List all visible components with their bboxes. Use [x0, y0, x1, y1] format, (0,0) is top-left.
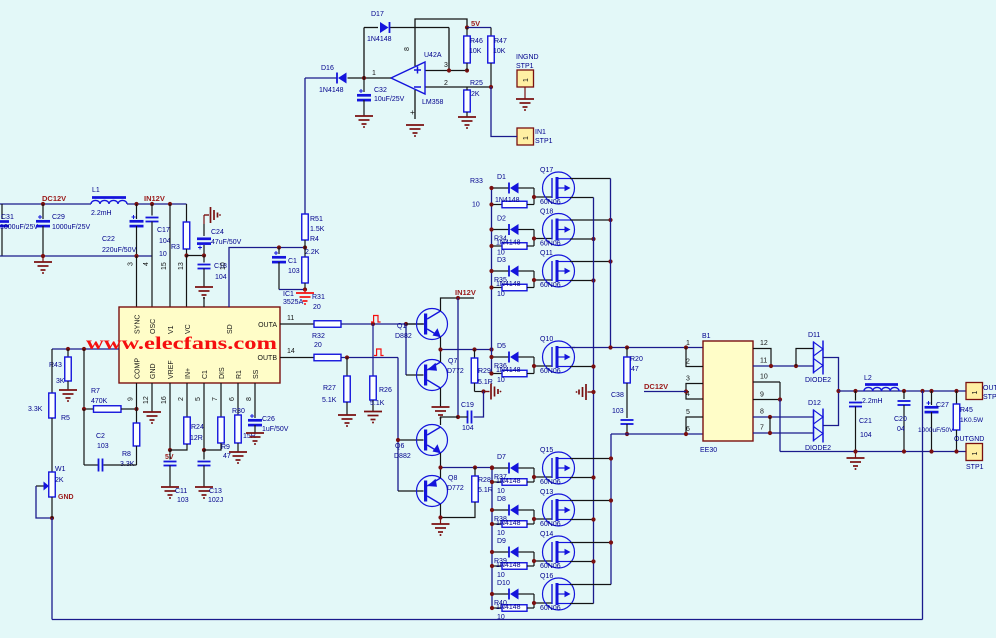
resistor R47 — [490, 28, 492, 37]
svg-text:5: 5 — [195, 397, 202, 401]
wire: 12V to Q6 collector — [441, 417, 459, 425]
wire: OSC pin stub — [151, 256, 153, 307]
wire: Q8 gnd stub — [440, 518, 442, 525]
resistor R39 — [492, 565, 502, 567]
svg-text:8: 8 — [404, 47, 411, 51]
svg-text:1N4148: 1N4148 — [496, 240, 521, 247]
svg-text:10: 10 — [760, 374, 768, 381]
wire: C19 left — [458, 416, 468, 418]
resistor R46 — [466, 28, 468, 37]
node VREF 5V — [168, 448, 172, 452]
svg-text:U42A: U42A — [424, 52, 442, 59]
wire: 12V rail — [457, 298, 459, 417]
svg-text:9: 9 — [128, 397, 135, 401]
svg-text:60N06: 60N06 — [540, 479, 561, 486]
wire: pin2 row — [425, 86, 491, 88]
svg-text:16: 16 — [161, 396, 168, 404]
svg-text:47uF/50V: 47uF/50V — [211, 239, 242, 246]
wire: Q7 collector — [440, 388, 442, 407]
wire: gate node Q17 — [533, 188, 535, 205]
svg-text:D882: D882 — [394, 453, 411, 460]
svg-text:OUTA: OUTA — [258, 322, 277, 329]
svg-text:60N06: 60N06 — [540, 199, 561, 206]
diode D10 — [492, 593, 509, 595]
svg-text:1000uF/50V: 1000uF/50V — [918, 427, 954, 434]
svg-text:104: 104 — [462, 425, 474, 432]
wire: Q13 source — [570, 519, 594, 521]
svg-text:1: 1 — [523, 136, 530, 140]
svg-text:GND: GND — [58, 494, 74, 501]
svg-text:10: 10 — [159, 251, 167, 258]
wire: R29 to rgnd — [475, 391, 484, 393]
svg-text:STP1: STP1 — [516, 63, 534, 70]
node 5V junction — [465, 25, 469, 29]
svg-text:3: 3 — [686, 376, 690, 383]
svg-text:C20: C20 — [894, 416, 907, 423]
wire: Q15 source — [570, 477, 594, 479]
wire: Q14 source — [570, 561, 594, 563]
svg-text:C21: C21 — [859, 418, 872, 425]
resistor R45 — [956, 391, 958, 404]
svg-text:L2: L2 — [864, 375, 872, 382]
svg-text:104: 104 — [860, 432, 872, 439]
wire: pin2 tie — [686, 348, 703, 367]
pulse icon OUTA — [371, 316, 381, 323]
IC U1 3525A body — [119, 307, 280, 383]
resistor R3 — [186, 204, 188, 222]
resistor R24 — [186, 383, 188, 417]
capacitor C13 — [203, 450, 205, 460]
diode D17 — [389, 22, 391, 33]
svg-text:5.1K: 5.1K — [322, 397, 337, 404]
node C22 rail — [134, 254, 138, 258]
node SD R51 — [303, 245, 307, 249]
svg-text:C24: C24 — [211, 229, 224, 236]
svg-text:C26: C26 — [262, 416, 275, 423]
node pin1 R20 — [625, 345, 629, 349]
wire: W1 wiper bracket — [36, 486, 52, 518]
svg-text:6: 6 — [229, 397, 236, 401]
node gate Q10 — [532, 364, 536, 368]
svg-text:C1: C1 — [202, 370, 209, 379]
svg-text:C38: C38 — [611, 392, 624, 399]
svg-text:+: + — [410, 108, 415, 117]
svg-text:7: 7 — [760, 425, 764, 432]
resistor R25 — [464, 90, 471, 112]
node gate bus A join — [489, 347, 493, 351]
svg-text:OSC: OSC — [150, 319, 157, 334]
ground under R43 — [59, 389, 77, 391]
capacitor C29 — [42, 204, 44, 219]
inductor L2 — [865, 383, 898, 386]
svg-text:STP1: STP1 — [535, 138, 553, 145]
node R7 branch — [82, 347, 86, 351]
svg-text:D772: D772 — [447, 485, 464, 492]
wire: Q10 drain — [570, 347, 575, 349]
node R3 bottom — [184, 253, 188, 257]
node D1 bus a — [489, 186, 493, 190]
node R29 bottom — [481, 389, 485, 393]
svg-text:IN12V: IN12V — [455, 288, 476, 297]
wire: Q18 source — [570, 238, 594, 240]
svg-text:Q17: Q17 — [540, 167, 553, 174]
node C27 bottom — [929, 449, 933, 453]
resistor R5 — [51, 349, 53, 393]
svg-text:1K0.5W: 1K0.5W — [960, 417, 984, 424]
transistor Q15 — [543, 452, 575, 484]
wire: R29 node to C19 — [474, 392, 484, 418]
rotated ground source bus — [588, 391, 593, 393]
ground under C32 — [355, 115, 373, 117]
svg-text:1N4148: 1N4148 — [496, 367, 521, 374]
wire: pin11 row — [753, 365, 814, 367]
transistor Q13 — [543, 494, 575, 526]
node pin3 a — [447, 68, 451, 72]
capacitor C24 — [203, 224, 205, 236]
svg-text:C22: C22 — [102, 236, 115, 243]
svg-text:8: 8 — [246, 397, 253, 401]
transistor Q14 — [543, 536, 575, 568]
node gate Q16 — [532, 601, 536, 605]
wire: OUTGND row — [780, 451, 966, 453]
node pin8 tie — [768, 415, 772, 419]
svg-text:C17: C17 — [157, 227, 170, 234]
wire: IC left pin row — [52, 348, 119, 350]
svg-text:2: 2 — [178, 397, 185, 401]
node COMP — [134, 407, 138, 411]
svg-text:D7: D7 — [497, 454, 506, 461]
transistor Q17 — [543, 172, 575, 204]
svg-text:1N4148: 1N4148 — [319, 87, 344, 94]
resistor R34 — [492, 245, 503, 247]
svg-text:10K: 10K — [469, 48, 482, 55]
capacitor C11 — [169, 450, 171, 460]
node C29 gnd — [41, 254, 45, 258]
svg-text:R46: R46 — [470, 38, 483, 45]
svg-text:R32: R32 — [312, 333, 325, 340]
wire: COMP stub — [136, 383, 138, 409]
svg-text:VREF: VREF — [168, 360, 175, 379]
wire: D11 common — [823, 358, 839, 392]
svg-text:C32: C32 — [374, 87, 387, 94]
svg-text:7: 7 — [212, 397, 219, 401]
node D9 bus b — [490, 564, 494, 568]
op-amp V- pin — [414, 90, 416, 119]
svg-text:11: 11 — [760, 358, 767, 365]
svg-text:60N06: 60N06 — [540, 282, 561, 289]
rotated ground above C24 — [204, 214, 209, 216]
transistor Q10 — [543, 341, 575, 373]
resistor R40 — [492, 607, 502, 609]
node R43 top — [66, 347, 70, 351]
svg-text:R30: R30 — [232, 408, 245, 415]
svg-text:R1: R1 — [236, 370, 243, 379]
svg-text:D9: D9 — [497, 538, 506, 545]
svg-text:2: 2 — [444, 80, 448, 87]
svg-text:Q15: Q15 — [540, 447, 553, 454]
node Q15 source — [591, 475, 595, 479]
wire: feedback riser — [922, 391, 924, 620]
node feedback tap — [920, 389, 924, 393]
svg-text:1.5K: 1.5K — [310, 226, 325, 233]
svg-text:C1: C1 — [288, 258, 297, 265]
wire: VREF pin — [169, 383, 171, 450]
wire: pin9 stub — [753, 399, 780, 401]
svg-text:103: 103 — [612, 408, 624, 415]
svg-text:60N06: 60N06 — [540, 521, 561, 528]
svg-text:15: 15 — [161, 262, 168, 270]
wire: OUTB to bases — [397, 358, 399, 492]
node gate Q13 — [532, 517, 536, 521]
capacitor C1 — [278, 248, 280, 255]
svg-text:D772: D772 — [447, 368, 464, 375]
svg-text:DC12V: DC12V — [42, 194, 66, 203]
svg-text:10: 10 — [497, 377, 505, 384]
svg-text:10K: 10K — [493, 48, 506, 55]
capacitor C26 — [254, 383, 256, 418]
svg-text:IN1: IN1 — [535, 129, 546, 136]
capacitor C17 — [151, 204, 153, 216]
svg-text:10: 10 — [220, 262, 227, 270]
svg-text:5.1R: 5.1R — [478, 487, 493, 494]
op-amp U42A — [391, 62, 425, 94]
svg-text:1: 1 — [972, 452, 979, 456]
transistor Q8 — [417, 476, 448, 507]
node R45 bottom — [954, 449, 958, 453]
resistor R26 — [372, 324, 374, 376]
wire: lower drain bus — [610, 434, 612, 585]
svg-text:C31: C31 — [1, 214, 14, 221]
ground under C11 — [161, 486, 179, 488]
wire: pin1 row — [570, 347, 703, 349]
svg-text:10: 10 — [497, 572, 505, 579]
ground under C26 — [246, 432, 264, 434]
svg-text:3: 3 — [128, 262, 135, 266]
resistor R9 — [220, 383, 222, 417]
node DC12V tap — [684, 389, 688, 393]
dual diode D11 — [813, 342, 815, 374]
svg-text:2.2mH: 2.2mH — [91, 210, 112, 217]
node Q11 drain — [608, 259, 612, 263]
node Q1 base — [404, 322, 408, 326]
wire: node to D17 — [363, 28, 365, 79]
svg-text:R27: R27 — [323, 385, 336, 392]
svg-text:IN+: IN+ — [185, 368, 192, 379]
dual diode D12 — [813, 410, 815, 442]
svg-text:60N06: 60N06 — [540, 563, 561, 570]
svg-text:20: 20 — [314, 342, 322, 349]
svg-text:2K: 2K — [55, 477, 64, 484]
svg-text:12: 12 — [760, 340, 768, 347]
svg-text:EE30: EE30 — [700, 447, 717, 454]
svg-text:R20: R20 — [630, 356, 643, 363]
diode D8 — [492, 509, 509, 511]
node Q14 source — [591, 559, 595, 563]
wire: D12 common — [823, 391, 839, 426]
wire: pin5 tie — [686, 417, 703, 434]
transistor Q18 — [543, 214, 575, 246]
wire: Q17 drain — [570, 178, 611, 180]
svg-text:470K: 470K — [91, 398, 108, 405]
connector OUTGND STP1 — [966, 444, 983, 461]
svg-text:R7: R7 — [91, 388, 100, 395]
node 12V rail top — [456, 296, 460, 300]
svg-text:1N4148: 1N4148 — [496, 604, 521, 611]
wire: output row — [839, 390, 967, 392]
svg-text:1N4148: 1N4148 — [496, 562, 521, 569]
node pin11 tie — [769, 364, 773, 368]
svg-text:DIS: DIS — [219, 367, 226, 379]
wire: source bus — [593, 198, 595, 604]
capacitor C21 — [855, 391, 857, 401]
svg-text:3: 3 — [444, 62, 448, 69]
wire: Q16 source — [570, 603, 594, 605]
svg-text:D3: D3 — [497, 257, 506, 264]
svg-text:GND: GND — [150, 363, 157, 379]
svg-text:13: 13 — [178, 262, 185, 270]
node rectifier out — [836, 389, 840, 393]
diode D5 — [492, 356, 510, 358]
svg-text:2.2K: 2.2K — [305, 249, 320, 256]
node pin9 tie — [778, 397, 782, 401]
resistor R28 — [474, 468, 476, 477]
wire: Q11 drain — [570, 261, 611, 263]
node D7 bus b — [490, 480, 494, 484]
svg-text:R43: R43 — [49, 362, 62, 369]
wire: D17 feedback — [364, 27, 378, 29]
svg-text:10: 10 — [472, 202, 480, 209]
capacitor C18 — [203, 256, 205, 263]
IC aux gnd pin — [203, 297, 205, 307]
inductor L1 — [92, 196, 126, 199]
wire: feedback rail — [52, 619, 923, 621]
svg-text:R33: R33 — [470, 178, 483, 185]
svg-text:STP1: STP1 — [983, 394, 996, 401]
svg-text:1N4148: 1N4148 — [495, 197, 520, 204]
wire: INGND to ground — [524, 87, 526, 99]
wire: DC12V input row — [0, 203, 91, 205]
wire: gate bus B — [491, 468, 493, 609]
svg-text:R3: R3 — [171, 244, 180, 251]
node D5 bus b — [489, 371, 493, 375]
svg-text:OUTGND: OUTGND — [954, 436, 984, 443]
node D11 branch — [794, 364, 798, 368]
wire: Q1 Q7 base tie — [405, 324, 407, 375]
resistor R7 — [84, 408, 94, 410]
svg-text:R24: R24 — [191, 424, 204, 431]
node Q18 drain — [608, 218, 612, 222]
node pin1 pin2 tie — [684, 345, 688, 349]
wire: IN1 to pin2 — [491, 87, 517, 137]
node IN12V a — [134, 202, 138, 206]
svg-text:Q11: Q11 — [540, 250, 553, 257]
wire: pin10 stub — [753, 381, 780, 383]
svg-text:www.elecfans.com: www.elecfans.com — [86, 333, 277, 353]
svg-text:D1: D1 — [497, 174, 506, 181]
node C21 top — [853, 389, 857, 393]
resistor R31 — [280, 323, 314, 325]
wire: D11 upper branch — [796, 349, 814, 367]
ground under C13 — [195, 486, 213, 488]
node D16 output — [362, 76, 366, 80]
node W1 bottom — [50, 516, 54, 520]
node CT — [202, 448, 206, 452]
resistor R30 — [237, 383, 239, 415]
svg-text:12: 12 — [143, 396, 150, 404]
capacitor C38 — [621, 419, 634, 421]
wire: V1 pin stub — [169, 204, 171, 307]
node D1 bus b — [489, 202, 493, 206]
svg-text:1: 1 — [686, 340, 690, 347]
ground under R25 — [458, 116, 476, 118]
svg-text:STP1: STP1 — [966, 464, 984, 471]
node gate Q14 — [532, 559, 536, 563]
svg-text:8: 8 — [760, 409, 764, 416]
svg-text:R4: R4 — [310, 236, 319, 243]
wire: upper drain bus — [610, 179, 612, 349]
node R29 top — [472, 347, 476, 351]
node D7 bus a — [490, 466, 494, 470]
svg-text:W1: W1 — [55, 466, 66, 473]
ground at output — [847, 457, 865, 459]
resistor R20 — [626, 348, 628, 358]
svg-text:60N06: 60N06 — [540, 368, 561, 375]
svg-text:SYNC: SYNC — [135, 315, 142, 334]
svg-text:1: 1 — [372, 70, 376, 77]
svg-text:5: 5 — [686, 409, 690, 416]
svg-text:2K: 2K — [471, 91, 480, 98]
ground under C18 — [195, 286, 213, 288]
svg-text:5.1K: 5.1K — [370, 400, 385, 407]
diode D2 — [492, 229, 510, 231]
svg-text:C19: C19 — [461, 402, 474, 409]
node gate Q15 — [532, 475, 536, 479]
node gate Q11 — [532, 278, 536, 282]
svg-text:1: 1 — [523, 78, 530, 82]
svg-text:Q13: Q13 — [540, 489, 553, 496]
svg-text:60N06: 60N06 — [540, 241, 561, 248]
svg-text:C13: C13 — [209, 488, 222, 495]
svg-text:COMP: COMP — [135, 358, 142, 379]
svg-text:R29: R29 — [478, 368, 491, 375]
svg-text:L1: L1 — [92, 187, 100, 194]
node gate bus B join — [490, 465, 494, 469]
svg-text:R31: R31 — [312, 294, 325, 301]
node R28 top — [473, 465, 477, 469]
svg-text:103: 103 — [177, 497, 189, 504]
svg-text:1: 1 — [972, 391, 979, 395]
wire: Q6 Q8 emitter join — [440, 453, 442, 468]
ground under R27 — [338, 414, 356, 416]
node DC12V — [41, 202, 45, 206]
svg-text:Q14: Q14 — [540, 531, 553, 538]
svg-text:2.2mH: 2.2mH — [862, 398, 883, 405]
wire: R7 branch vertical — [83, 349, 85, 409]
svg-text:103: 103 — [97, 443, 109, 450]
wire: pin8 row — [753, 416, 814, 418]
node source bus gnd — [591, 390, 595, 394]
svg-text:1N4148: 1N4148 — [496, 520, 521, 527]
ground under Q8 — [432, 523, 450, 525]
transistor Q7 — [417, 360, 448, 391]
svg-text:R25: R25 — [470, 80, 483, 87]
red ground under R4 — [304, 290, 306, 294]
node Q18 source — [591, 237, 595, 241]
svg-text:10: 10 — [497, 530, 505, 537]
capacitor C20 — [903, 391, 905, 399]
capacitor C2 — [83, 409, 85, 465]
node D9 bus a — [490, 550, 494, 554]
